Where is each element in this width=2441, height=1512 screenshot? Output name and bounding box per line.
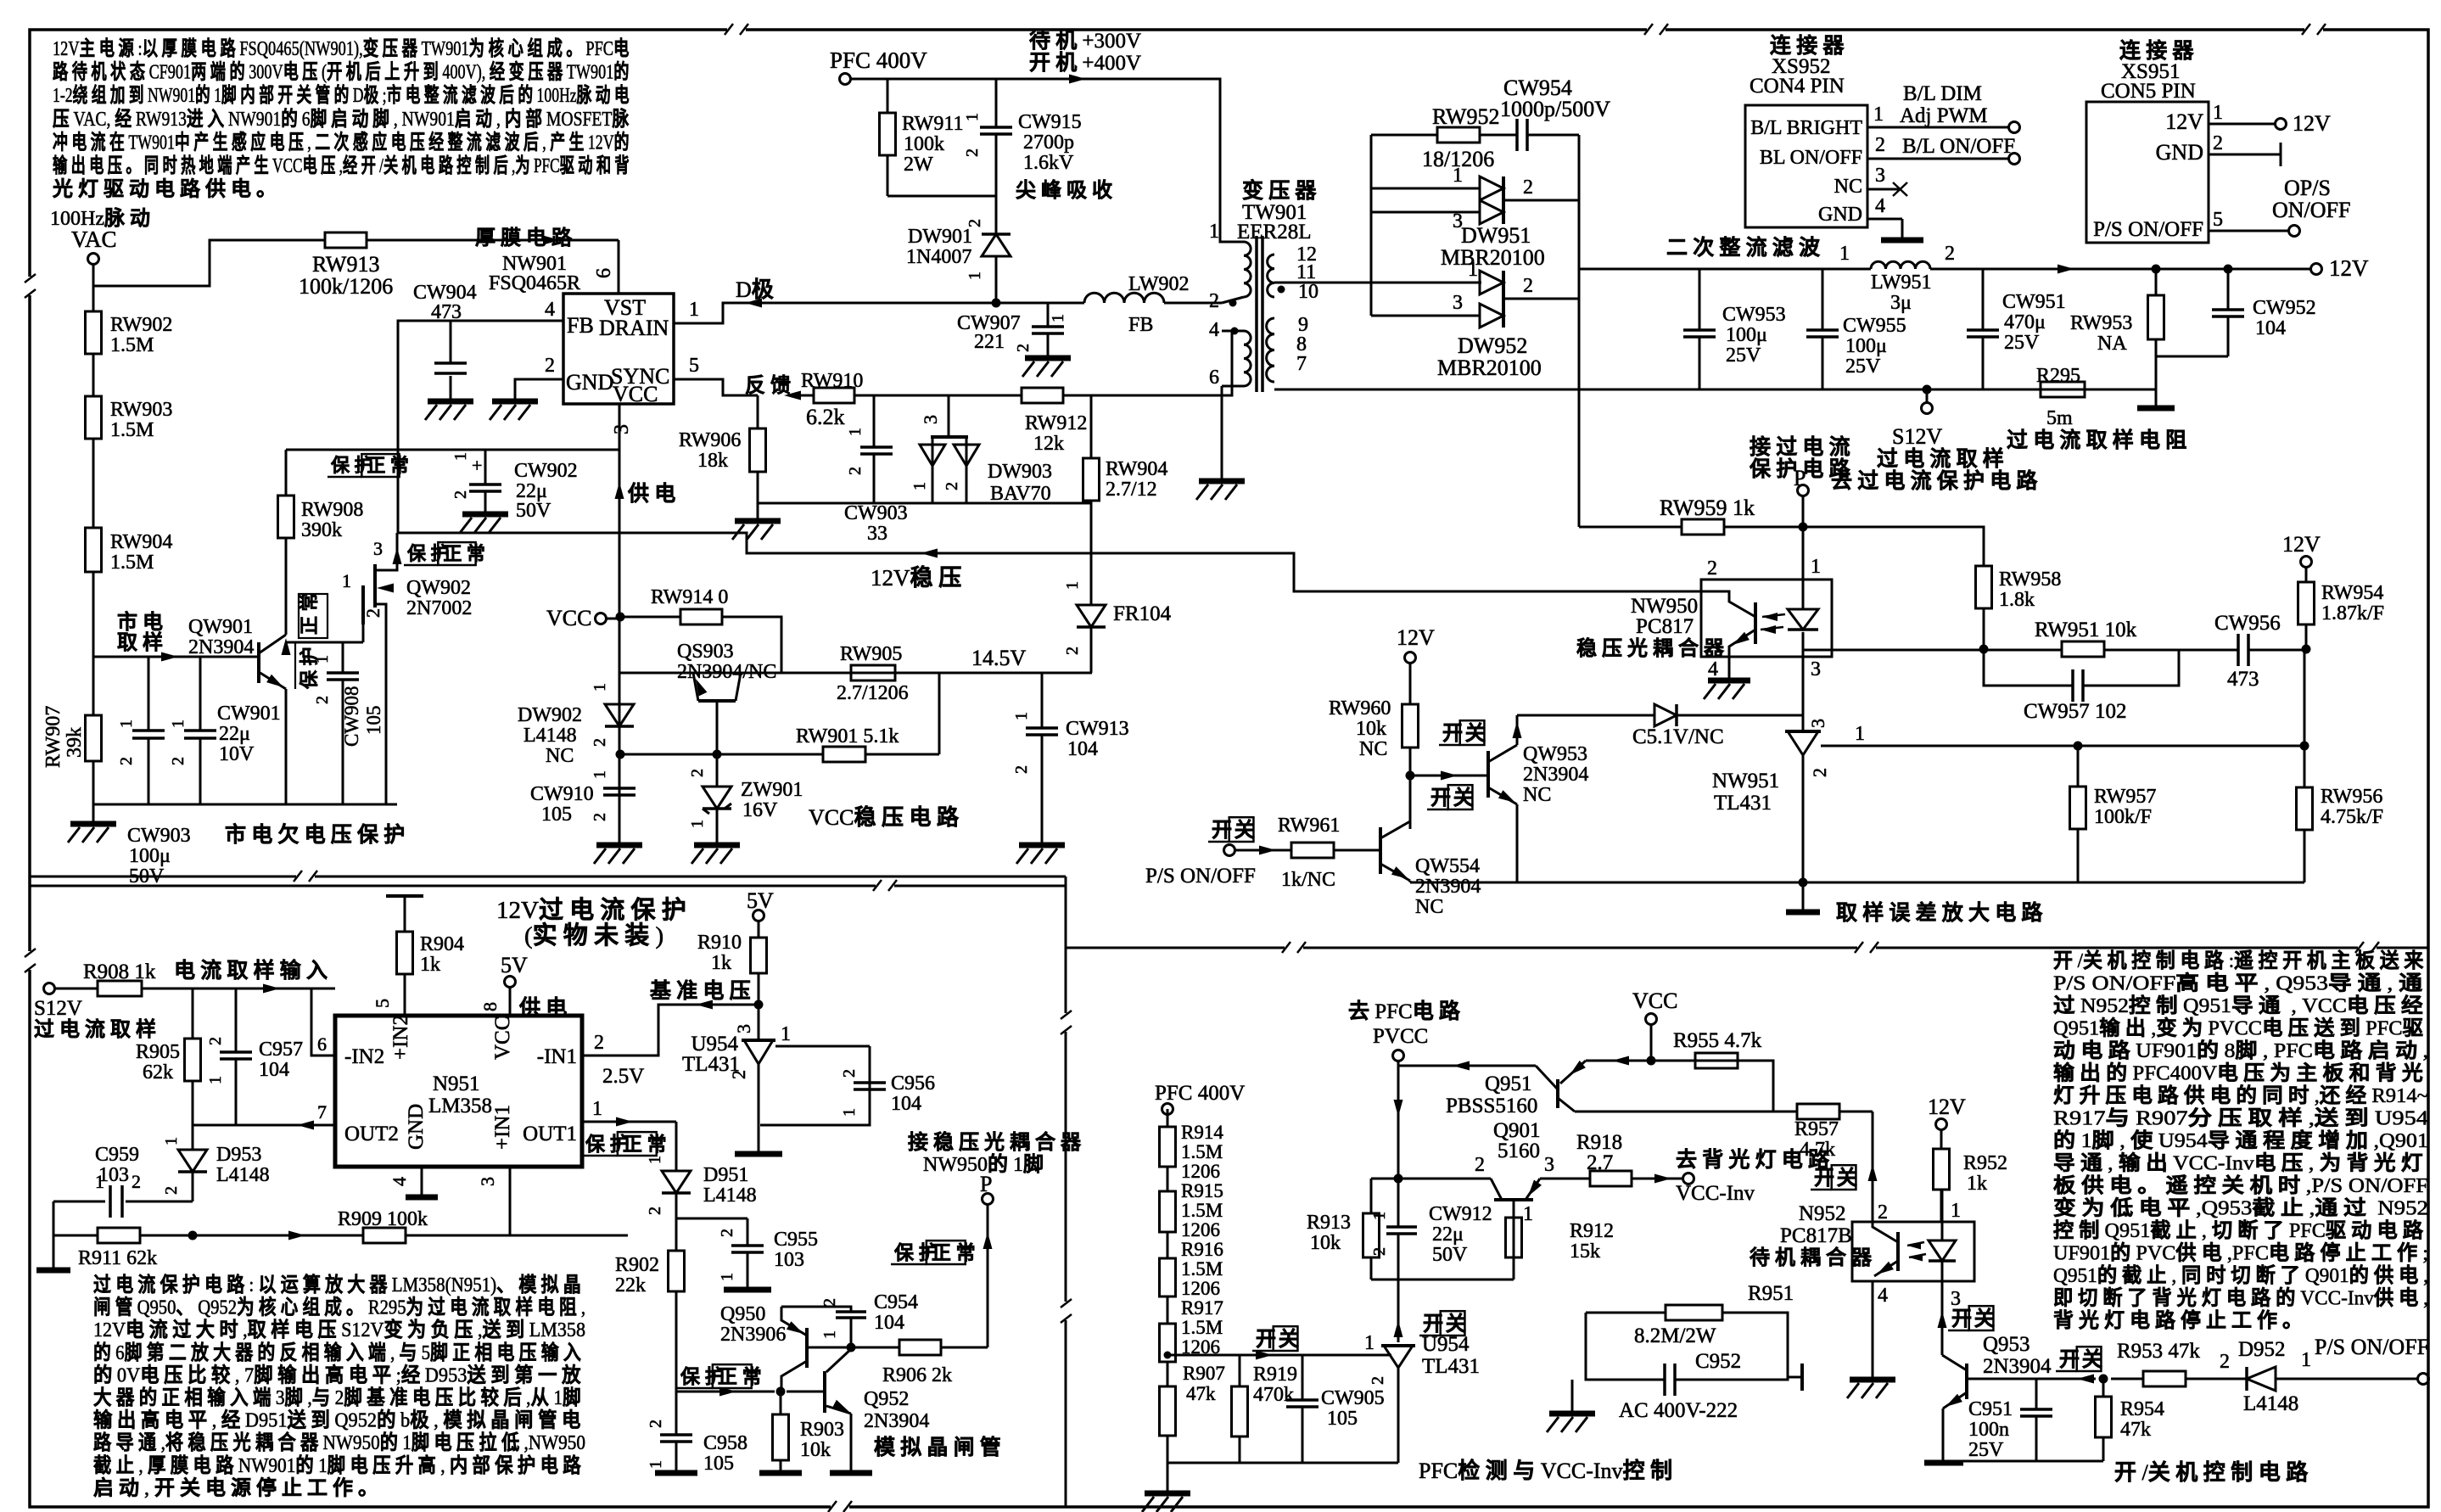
svg-text:Q950: Q950 (720, 1303, 765, 1325)
svg-text:1: 1 (1523, 1203, 1533, 1225)
label 电流取样输入 (174, 958, 333, 983)
svg-text:过电流取样电阻: 过电流取样电阻 (2007, 428, 2192, 452)
terminal P ocp (980, 1172, 994, 1205)
ground N952 pin4 (1847, 1380, 1895, 1398)
svg-text:CW901: CW901 (217, 703, 281, 725)
annotation 开关 QW953 collector (1439, 720, 1491, 745)
svg-text:CON5 PIN: CON5 PIN (2101, 80, 2196, 103)
svg-text:2: 2 (1878, 1201, 1888, 1224)
wire Q952 emitter gnd (850, 1414, 853, 1471)
svg-text:QW953: QW953 (1523, 743, 1587, 765)
NW950 pin4 ground (1704, 657, 1750, 699)
resistor RW906 branch (757, 395, 759, 497)
wire box bottom (1371, 1279, 1514, 1281)
svg-text:R915: R915 (1181, 1180, 1223, 1201)
wire Q953 emitter (1942, 1408, 1945, 1461)
svg-text:启动, 开关电源停止工作。: 启动, 开关电源停止工作。 (93, 1476, 384, 1499)
svg-text:关: 关 (1837, 1167, 1862, 1190)
connector XS951 box (2086, 102, 2209, 243)
svg-text:18k: 18k (697, 450, 728, 472)
svg-text:6: 6 (1209, 367, 1219, 389)
terminal PFC400V (840, 74, 851, 85)
label DW952 pin3 (1453, 292, 1463, 314)
svg-text:5160: 5160 (1498, 1140, 1540, 1162)
terminal 12V mid (1397, 625, 1435, 664)
svg-text:CW955: CW955 (1843, 315, 1906, 337)
label CW954 1000p/500V (1500, 76, 1610, 121)
wire VCC drop (1650, 1024, 1653, 1061)
label U954 TL431 b (1422, 1333, 1480, 1378)
wire RW913 to NW901 pin6 (367, 236, 619, 245)
capacitor CW957 (2073, 669, 2083, 702)
label QW554 2N3904 NC (1415, 855, 1481, 918)
label pin5 (372, 999, 393, 1008)
label DW951 pin2 (1523, 176, 1533, 199)
svg-text:2N3904: 2N3904 (1523, 764, 1588, 786)
svg-text:+IN1: +IN1 (491, 1105, 514, 1150)
wire rectifier left vertical (1370, 135, 1373, 316)
svg-text:LW902: LW902 (1128, 273, 1190, 295)
svg-text:NC: NC (1359, 738, 1387, 760)
wire ref to pin2 (582, 1000, 759, 1056)
capacitor CW910 (603, 788, 635, 795)
label Q953 2N3904 (1983, 1333, 2052, 1378)
svg-text:R914: R914 (1181, 1122, 1223, 1143)
wire Q953 base row (1967, 1375, 2247, 1384)
svg-text:R957: R957 (1794, 1118, 1839, 1140)
label Q951 PBSS5160 (1446, 1072, 1537, 1117)
label R295 5m (2036, 365, 2080, 429)
svg-text:RW904: RW904 (1106, 458, 1167, 480)
junction R910 (754, 1000, 764, 1010)
label CW956 473 (2214, 612, 2281, 691)
capacitor CW905 plates (1286, 1400, 1318, 1407)
label RW910 (801, 370, 863, 392)
svg-text:GND: GND (1818, 204, 1862, 226)
svg-text:L4148: L4148 (523, 725, 577, 747)
wire U954a gnd (758, 1128, 760, 1152)
loop R951 C952 (1572, 1313, 1788, 1412)
capacitor C956 (854, 1083, 886, 1089)
svg-text:2: 2 (688, 769, 707, 777)
svg-text:2: 2 (2213, 132, 2223, 154)
svg-text:MBR20100: MBR20100 (1441, 245, 1545, 270)
resistor R908 (98, 981, 142, 996)
terminal PVCC (1393, 1050, 1404, 1061)
capacitor CW913 wire (1041, 673, 1044, 843)
svg-text:NC: NC (546, 745, 574, 767)
ground below CW907 (1022, 358, 1071, 377)
svg-text:RW914 0: RW914 0 (651, 586, 728, 608)
svg-text:NC: NC (1415, 896, 1443, 918)
label pin2 n951 (594, 1032, 604, 1054)
N952 pin1 number (1951, 1200, 1961, 1222)
svg-text:板供电。遥控关机时,P/S ON/OFF: 板供电。遥控关机时,P/S ON/OFF (2053, 1173, 2428, 1197)
svg-text:104: 104 (1067, 738, 1098, 760)
svg-text:2: 2 (943, 482, 961, 490)
wire RW958 bottom (1983, 608, 1985, 649)
label R912 15k (1570, 1220, 1614, 1263)
label RW902 (110, 314, 172, 356)
svg-text:VCC稳压电路: VCC稳压电路 (809, 804, 964, 830)
svg-text:VCC: VCC (546, 606, 591, 630)
wire DW952 row3 (1371, 315, 1480, 317)
label CW913 104 (1066, 718, 1129, 760)
Q951 emitter (1560, 1056, 1773, 1084)
wire secondary top to rectifier (1274, 282, 1481, 284)
svg-text:R918: R918 (1576, 1131, 1622, 1154)
ground P node (1786, 910, 1820, 916)
junction C954 (847, 1343, 856, 1352)
label 开/关机控制电路 (2114, 1459, 2314, 1485)
N951 labels (344, 1015, 577, 1150)
svg-text:22μ: 22μ (1432, 1224, 1464, 1246)
capacitor CW953 wire (1699, 269, 1701, 389)
svg-text:开机+400V: 开机+400V (1029, 51, 1141, 75)
svg-text:1k: 1k (1967, 1173, 1987, 1195)
svg-text:连接器: 连接器 (1770, 34, 1850, 58)
svg-text:3: 3 (611, 424, 633, 434)
svg-text:FB: FB (567, 313, 594, 338)
capacitor CW915 plates (980, 127, 1012, 134)
label DW951 pin1 (1453, 165, 1463, 187)
label C959 pins (95, 1171, 141, 1192)
XS952 pin2 (1867, 134, 2020, 165)
svg-text:25V: 25V (1845, 356, 1881, 378)
svg-text:100k/1206: 100k/1206 (299, 274, 393, 299)
wire RW953 ground stub (2155, 389, 2158, 408)
svg-text:2: 2 (963, 148, 982, 157)
label D952 L4148 (2243, 1392, 2298, 1415)
svg-text:R908 1k: R908 1k (83, 960, 156, 983)
capacitor C951 plates (2020, 1409, 2052, 1416)
svg-text:12V: 12V (1397, 625, 1435, 650)
svg-text:PBSS5160: PBSS5160 (1446, 1095, 1537, 1117)
wire QW902 gate link (286, 641, 363, 644)
label C955 pins (718, 1229, 736, 1281)
svg-text:-IN2: -IN2 (344, 1045, 384, 1068)
bottom row onoff (1943, 1460, 2103, 1463)
transformer secondary pin numbers (1296, 244, 1318, 375)
label RW912 12k (1025, 412, 1087, 455)
pin number 5 (689, 355, 699, 377)
svg-text:灯升压电路供电的同时,还经R914~: 灯升压电路供电的同时,还经R914~ (2053, 1084, 2428, 1107)
svg-text:C5.1V/NC: C5.1V/NC (1632, 725, 1724, 748)
label B/L DIM Adj PWM (1900, 82, 1987, 127)
svg-text:2N3906: 2N3906 (720, 1324, 786, 1346)
svg-text:GND: GND (566, 370, 613, 395)
svg-text:R952: R952 (1963, 1152, 2007, 1174)
junction QW554 (1406, 771, 1415, 781)
svg-text:NW950的1脚: NW950的1脚 (923, 1152, 1049, 1176)
svg-text:PC817B: PC817B (1780, 1224, 1852, 1247)
svg-text:3: 3 (1807, 719, 1828, 728)
resistor R912 wire (1513, 1218, 1515, 1280)
svg-text:DW901: DW901 (908, 226, 972, 248)
wire DW901 branch (995, 196, 998, 303)
capacitor CW915 wire (995, 79, 998, 196)
label DW903 BAV70 (988, 461, 1052, 505)
label RW903 (110, 399, 172, 441)
transistor QW953 (1488, 745, 1518, 807)
svg-text:BAV70: BAV70 (990, 483, 1051, 505)
capacitor CW913 plates (1026, 728, 1058, 735)
svg-text:DW951: DW951 (1461, 223, 1531, 248)
wire VAC down-right-up to RW913 (93, 240, 325, 286)
resistor R910 (751, 938, 767, 973)
ground R951 loop (1547, 1414, 1595, 1432)
wire D951 down (675, 1193, 678, 1218)
transistor Q952 (825, 1349, 852, 1416)
wire Q950 base link (807, 1347, 851, 1349)
svg-text:动电路UF901的8脚, PFC电路启动,: 动电路UF901的8脚, PFC电路启动, (2053, 1039, 2428, 1062)
diode DW952 lower (1480, 304, 1503, 328)
XS952 pin names (1750, 117, 1862, 226)
svg-text:B/L BRIGHT: B/L BRIGHT (1750, 117, 1862, 139)
svg-text:ZW901: ZW901 (741, 779, 803, 801)
label pin3 n951 (477, 1177, 498, 1186)
wire QW901 collector up (282, 538, 291, 655)
svg-text:47k: 47k (2120, 1419, 2151, 1441)
pin number 2 (545, 355, 555, 377)
svg-text:R955 4.7k: R955 4.7k (1673, 1029, 1762, 1052)
svg-text:1: 1 (169, 720, 188, 728)
svg-text:L4148: L4148 (2243, 1392, 2298, 1415)
capacitor plates A (132, 731, 165, 738)
junction CW907 (992, 299, 1001, 308)
svg-text:光灯驱动电路供电。: 光灯驱动电路供电。 (52, 177, 282, 201)
label D953 L4148 (216, 1144, 270, 1186)
XS952 pin3 (1867, 165, 1907, 196)
svg-text:CW915: CW915 (1018, 111, 1082, 133)
svg-text:LW951: LW951 (1871, 272, 1932, 294)
label 待机+300V 开机+400V (1029, 29, 1141, 75)
label 市电取样 (117, 610, 168, 654)
svg-text:R903: R903 (800, 1419, 844, 1441)
capacitor C955 plates (731, 1246, 764, 1252)
wire Q901 top row (1371, 1178, 1491, 1180)
svg-text:R912: R912 (1570, 1220, 1614, 1242)
svg-text:62k: 62k (143, 1061, 173, 1084)
svg-text:12V: 12V (1928, 1095, 1966, 1119)
svg-text:1: 1 (1951, 1200, 1961, 1222)
wire 14.5V rail (619, 672, 1092, 675)
svg-text:Q951输出,变为PVCC电压送到PFC驱: Q951输出,变为PVCC电压送到PFC驱 (2053, 1016, 2428, 1040)
ground R903 (759, 1470, 802, 1476)
transformer dots primary (1229, 300, 1239, 335)
wire QW554 collector (1409, 776, 1412, 829)
svg-text:供电: 供电 (518, 996, 572, 1020)
resistor R954b (2096, 1397, 2112, 1437)
label D952 (2238, 1338, 2286, 1361)
svg-text:2: 2 (591, 738, 609, 747)
svg-text:1: 1 (1811, 556, 1821, 578)
label RW951 10k (2035, 619, 2137, 641)
divider vertical between bottom boxes (1065, 876, 1067, 1507)
svg-text:3: 3 (477, 1177, 498, 1186)
label S12V 过电流取样 (34, 997, 161, 1041)
svg-text:2: 2 (846, 467, 865, 475)
svg-text:47k: 47k (1186, 1383, 1216, 1404)
transformer dot secondary (1278, 286, 1285, 294)
svg-text:R902: R902 (615, 1254, 659, 1276)
transformer primary coil (1244, 242, 1251, 386)
wire PFC400V rail (851, 75, 1240, 243)
label RW958 1.8k (1999, 568, 2061, 611)
svg-text:CW956: CW956 (2214, 612, 2281, 635)
svg-text:闸管Q950、Q952为核心组成。R295为过电流取样电阻,: 闸管Q950、Q952为核心组成。R295为过电流取样电阻, (93, 1296, 585, 1319)
svg-text:开: 开 (1423, 1313, 1448, 1336)
svg-text:15k: 15k (1570, 1240, 1600, 1263)
resistor R916 (1160, 1258, 1176, 1296)
svg-text:4.75k/F: 4.75k/F (2321, 806, 2383, 828)
svg-text:TL431: TL431 (1422, 1355, 1480, 1378)
svg-text:关: 关 (1974, 1308, 2000, 1330)
label RW906 18k (679, 429, 741, 472)
svg-text:2N7002: 2N7002 (406, 597, 472, 619)
wire FR104 to rail (1090, 627, 1093, 673)
label Q901 5160 (1493, 1119, 1541, 1162)
wire PVCC to Q951 (1398, 1061, 1536, 1071)
ground below CW913 (1016, 845, 1065, 864)
capacitor CW902 branch (484, 450, 487, 512)
junction ref (2300, 742, 2309, 751)
label CW910 pins (591, 770, 609, 821)
wire RW908 top (285, 450, 288, 496)
wire RW906 ground stub (757, 497, 759, 521)
node VAC 100Hz label (50, 207, 155, 252)
resistor RW957 (2070, 787, 2086, 829)
svg-text:1: 1 (1468, 259, 1478, 281)
wire RW954 (2305, 567, 2308, 649)
svg-text:开: 开 (1442, 722, 1468, 745)
svg-text:R913: R913 (1307, 1212, 1351, 1234)
pin number 1 (689, 299, 699, 321)
svg-text:105: 105 (541, 804, 572, 826)
svg-text:CON4 PIN: CON4 PIN (1750, 75, 1845, 98)
svg-text:6: 6 (317, 1033, 327, 1055)
NW950 pin2 number (1707, 557, 1717, 580)
svg-text:待机+300V: 待机+300V (1029, 29, 1141, 53)
label R914 (1181, 1122, 1223, 1182)
XS951 pin names (2093, 109, 2203, 241)
svg-text:TL431: TL431 (682, 1053, 740, 1076)
svg-text:12V: 12V (2329, 255, 2369, 281)
svg-text:过N952控制Q951导通 , VCC电压经: 过N952控制Q951导通 , VCC电压经 (2053, 994, 2428, 1017)
wire pin3 (509, 1167, 512, 1235)
transistor Q950 pnp (781, 1307, 807, 1392)
label R954 47k (2120, 1398, 2164, 1441)
svg-text:R295: R295 (2036, 365, 2080, 387)
svg-text:25V: 25V (2004, 332, 2040, 354)
svg-text:2N3904: 2N3904 (1415, 876, 1481, 898)
svg-text:25V: 25V (1968, 1439, 2004, 1461)
capacitor CW912 plates (1386, 1227, 1417, 1234)
resistor RW908 (278, 496, 294, 538)
diode DW902 (605, 704, 634, 726)
svg-text:7: 7 (317, 1101, 327, 1123)
svg-text:VCC-Inv: VCC-Inv (1676, 1182, 1755, 1205)
svg-text:VCC: VCC (1632, 988, 1677, 1013)
svg-text:390k: 390k (301, 519, 342, 541)
label pin6 (317, 1033, 327, 1055)
svg-text:RW903: RW903 (110, 399, 172, 421)
junction RW954 bottom (2302, 645, 2311, 654)
svg-text:RW908: RW908 (301, 499, 363, 521)
label RW959 1k (1660, 496, 1755, 520)
annotation 开关 Q953 base (2056, 1347, 2108, 1371)
resistor RW902 (86, 311, 102, 354)
transformer pin1 number (1209, 221, 1219, 243)
label DW901 pins (966, 219, 984, 280)
wire comp row (1803, 649, 2304, 652)
svg-text:L4148: L4148 (216, 1164, 270, 1186)
svg-text:R907: R907 (1183, 1363, 1225, 1384)
svg-text:1.5M: 1.5M (1181, 1200, 1223, 1221)
annotation 保护正常 pin1 (582, 1132, 671, 1156)
svg-text:1.5M: 1.5M (110, 419, 154, 441)
label RW910 6.2k (806, 405, 845, 429)
resistor RW904b branch (1090, 395, 1093, 605)
svg-text:正常: 正常 (299, 588, 320, 635)
pin number 3 (611, 424, 633, 434)
label D951 L4148 (703, 1164, 757, 1207)
junction dots RW901 (616, 750, 722, 759)
ground C958 (655, 1470, 697, 1476)
resistor RW961 (1291, 843, 1334, 858)
wire NW901 pin6 drop (618, 240, 620, 294)
svg-text:2N3904: 2N3904 (188, 636, 254, 658)
label 二次整流滤波 (1666, 236, 1825, 260)
svg-text:N951: N951 (433, 1072, 480, 1095)
resistor RW906 (750, 428, 766, 472)
svg-text:RW904: RW904 (110, 531, 172, 553)
svg-text:二次整流滤波: 二次整流滤波 (1666, 236, 1825, 260)
svg-text:2: 2 (820, 1298, 839, 1307)
annotation 开关 QW953 (1427, 785, 1479, 809)
wire C959 gnd (53, 1235, 55, 1268)
wire QW554 emitter row (1410, 881, 1803, 882)
resistor R954 wire (2102, 1379, 2105, 1461)
svg-text:C955: C955 (774, 1229, 818, 1251)
svg-text:1k/NC: 1k/NC (1281, 869, 1335, 891)
label CW903 100u 50V (127, 825, 191, 888)
transformer core (1257, 236, 1262, 392)
terminal 12V sense top (2282, 532, 2321, 568)
label LW951 3u (1871, 272, 1932, 314)
transistor Q901 (1491, 1179, 1542, 1218)
label 模拟晶闸管 (874, 1435, 1006, 1459)
svg-text:105: 105 (363, 706, 384, 736)
label RW904b 2.7/12 (1106, 458, 1167, 501)
svg-text:正常: 正常 (623, 1133, 672, 1155)
label CW908 105 rotated (341, 686, 384, 747)
resistor RW954 (2298, 582, 2315, 624)
label C952 (1695, 1350, 1741, 1373)
wire NW950 pin3 down (1802, 657, 1805, 731)
svg-text:CW957 102: CW957 102 (2024, 700, 2127, 723)
capacitor C959 loop (53, 1201, 193, 1235)
optocoupler NW950 box (1701, 580, 1832, 657)
label R909 100k (338, 1208, 428, 1230)
junction R903 (776, 1387, 786, 1397)
svg-text:104: 104 (259, 1059, 289, 1081)
label RW907 rotated (42, 706, 86, 768)
resistor RW907 (86, 715, 102, 761)
svg-text:RW907: RW907 (42, 706, 64, 768)
svg-text:50V: 50V (516, 500, 551, 522)
wire QW902 drain up arrow (393, 547, 402, 564)
